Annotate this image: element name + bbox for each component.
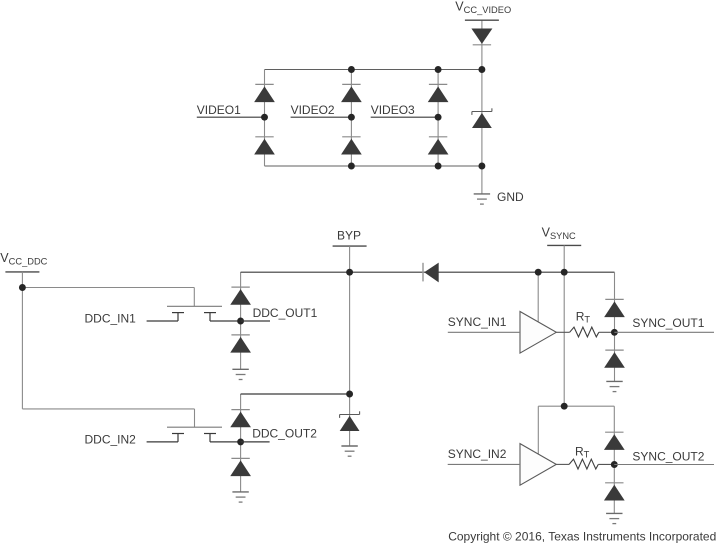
svg-text:GND: GND	[497, 190, 524, 204]
svg-text:SYNC_OUT1: SYNC_OUT1	[632, 316, 704, 330]
svg-text:VIDEO1: VIDEO1	[197, 103, 241, 117]
svg-text:VIDEO2: VIDEO2	[291, 103, 335, 117]
svg-text:DDC_IN2: DDC_IN2	[85, 433, 137, 447]
svg-text:DDC_IN1: DDC_IN1	[85, 312, 137, 326]
svg-text:DDC_OUT1: DDC_OUT1	[253, 306, 318, 320]
svg-text:DDC_OUT2: DDC_OUT2	[252, 427, 317, 441]
svg-text:SYNC_IN1: SYNC_IN1	[448, 315, 507, 329]
svg-text:BYP: BYP	[337, 229, 361, 243]
svg-text:VIDEO3: VIDEO3	[371, 103, 415, 117]
svg-text:SYNC_IN2: SYNC_IN2	[448, 447, 507, 461]
svg-text:Copyright © 2016, Texas Instru: Copyright © 2016, Texas Instruments Inco…	[448, 529, 716, 543]
svg-text:SYNC_OUT2: SYNC_OUT2	[632, 450, 704, 464]
